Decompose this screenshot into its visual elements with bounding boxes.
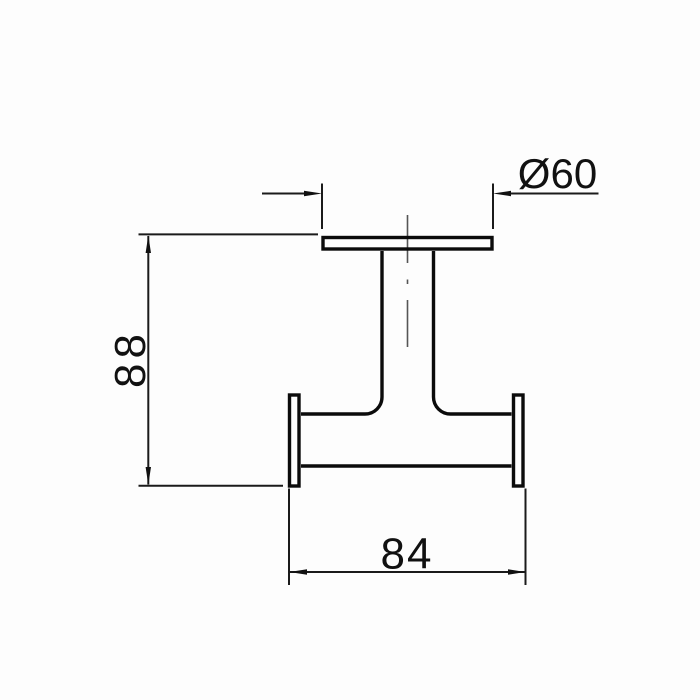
dimension 84 left extension line [288,489,290,586]
dimension Ø60 left arrow line [262,191,322,196]
dimension Ø60 leader line with right arrow [493,191,599,196]
dimension Ø60 extension line left [321,184,323,230]
dimension Ø60 extension line right [492,184,494,230]
centerline (vertical axis of stem) [407,215,409,347]
dimension 84 dimension line with arrows [289,569,525,574]
crossbar bottom edge [301,464,512,467]
right end cap [514,395,524,486]
svg-text:Ø60: Ø60 [518,150,597,197]
dimension 84 right extension line [525,489,527,586]
svg-text:88: 88 [106,329,155,388]
dimension 88 bottom extension line [139,485,284,487]
stem (vertical post with fillets into crossbar top) [301,251,512,414]
svg-text:84: 84 [381,530,434,579]
mounting flange (top plate) [323,238,492,250]
dimension 88 dimension line with arrows [146,235,151,484]
left end cap [290,395,300,486]
dimension 88 top extension line [139,233,319,235]
